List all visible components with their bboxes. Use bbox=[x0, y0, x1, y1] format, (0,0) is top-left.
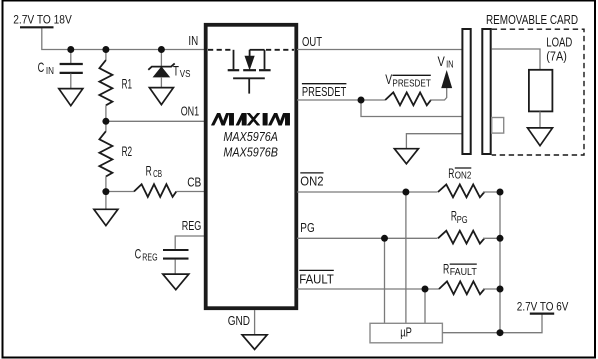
svg-text:2.7V TO 6V: 2.7V TO 6V bbox=[517, 299, 569, 313]
ground hook from connector bbox=[394, 134, 461, 164]
wire uP to supply bbox=[442, 315, 542, 333]
svg-text:PG: PG bbox=[457, 215, 468, 226]
wire PG junction to uP bbox=[384, 238, 386, 323]
wire PRESDET to connector bbox=[361, 100, 462, 117]
svg-text:2.7V TO 18V: 2.7V TO 18V bbox=[13, 13, 72, 27]
svg-text:FAULT: FAULT bbox=[450, 267, 477, 278]
supply terminal 2.7V TO 18V bbox=[13, 13, 72, 28]
connector bar 2 bbox=[482, 29, 490, 154]
wire ON2 bbox=[297, 191, 438, 193]
svg-text:V: V bbox=[438, 53, 446, 69]
svg-text:C: C bbox=[38, 59, 45, 75]
resistor R1 bbox=[99, 50, 132, 122]
svg-text:CB: CB bbox=[187, 175, 201, 190]
svg-text:GND: GND bbox=[228, 313, 250, 328]
svg-text:FAULT: FAULT bbox=[299, 272, 334, 287]
svg-text:MAX5976A: MAX5976A bbox=[223, 130, 278, 144]
svg-text:PG: PG bbox=[300, 220, 314, 235]
pin label ON1 bbox=[181, 103, 200, 118]
capacitor CREG bbox=[135, 236, 205, 274]
removable card dashed box bbox=[486, 13, 584, 155]
svg-text:R: R bbox=[146, 162, 152, 178]
resistor RPG bbox=[438, 208, 500, 244]
svg-text:PRESDET: PRESDET bbox=[302, 84, 346, 99]
ground under R2 bbox=[94, 192, 118, 226]
wire PRESDET bbox=[297, 99, 385, 101]
svg-text:REG: REG bbox=[142, 252, 157, 263]
ground under load bbox=[528, 111, 553, 145]
ground under CIN bbox=[59, 89, 83, 106]
supply terminal 2.7V TO 6V bbox=[517, 299, 569, 313]
TVS diode bbox=[148, 50, 190, 88]
svg-text:R1: R1 bbox=[122, 76, 133, 92]
VIN arrow bbox=[438, 53, 454, 88]
wire PG bbox=[297, 237, 438, 239]
pin label ON2 (overlined) bbox=[300, 173, 323, 189]
pin label PG bbox=[300, 220, 314, 235]
wire OUT bbox=[297, 49, 462, 51]
resistor RON2 bbox=[438, 165, 500, 198]
svg-text:ON2: ON2 bbox=[300, 174, 323, 189]
node ON1 / wire bbox=[106, 120, 205, 122]
wire FAULT junction to uP bbox=[424, 289, 426, 323]
pin label PRESDET (overlined) bbox=[302, 84, 347, 99]
connector bar 1 bbox=[462, 29, 470, 154]
resistor RFAULT bbox=[439, 260, 500, 294]
pin label GND bbox=[228, 313, 250, 328]
svg-text:REG: REG bbox=[182, 218, 202, 233]
svg-text:MAX5976B: MAX5976B bbox=[223, 145, 278, 159]
MAXIM logo bbox=[211, 113, 289, 125]
svg-text:µP: µP bbox=[400, 325, 412, 340]
pin label OUT bbox=[302, 34, 322, 49]
svg-text:(7A): (7A) bbox=[546, 50, 567, 64]
bus right vertical bbox=[499, 192, 501, 333]
svg-text:R: R bbox=[443, 260, 449, 276]
internal MOSFET bbox=[208, 50, 294, 94]
svg-text:C: C bbox=[135, 245, 142, 261]
resistor VPRESDET bbox=[385, 71, 447, 105]
pin label FAULT (overlined) bbox=[299, 270, 334, 286]
card notch bbox=[492, 118, 504, 134]
resistor RCB bbox=[106, 162, 205, 197]
ground under TVS bbox=[149, 88, 173, 105]
svg-text:VS: VS bbox=[180, 69, 191, 80]
pin label IN bbox=[188, 33, 198, 48]
GND pin wire bbox=[254, 310, 256, 335]
resistor R2 bbox=[99, 121, 132, 191]
load resistor block bbox=[529, 35, 572, 111]
wire ON2 junction to uP bbox=[405, 192, 407, 323]
pin label CB bbox=[187, 175, 201, 190]
svg-text:T: T bbox=[173, 63, 179, 79]
wire IN rail bbox=[42, 28, 205, 50]
svg-text:ON2: ON2 bbox=[455, 171, 472, 182]
svg-text:R2: R2 bbox=[122, 143, 133, 159]
svg-text:R: R bbox=[448, 165, 454, 181]
IC U1 MAX5976 box bbox=[206, 25, 297, 308]
svg-text:IN: IN bbox=[446, 60, 454, 71]
svg-text:OUT: OUT bbox=[302, 34, 322, 49]
ground under GND bbox=[242, 335, 267, 350]
wire card to load bbox=[492, 49, 540, 70]
capacitor CIN bbox=[38, 50, 83, 89]
svg-text:PRESDET: PRESDET bbox=[392, 78, 430, 89]
svg-text:IN: IN bbox=[188, 33, 198, 48]
pin label REG bbox=[182, 218, 202, 233]
microprocessor uP box bbox=[370, 323, 442, 343]
svg-text:LOAD: LOAD bbox=[546, 35, 572, 49]
svg-text:ON1: ON1 bbox=[181, 103, 200, 118]
svg-text:REMOVABLE CARD: REMOVABLE CARD bbox=[486, 13, 578, 27]
ground under CREG bbox=[163, 274, 189, 290]
IC part numbers bbox=[223, 130, 278, 159]
wire FAULT bbox=[297, 288, 439, 290]
svg-text:CB: CB bbox=[153, 169, 162, 180]
svg-text:IN: IN bbox=[46, 66, 54, 77]
